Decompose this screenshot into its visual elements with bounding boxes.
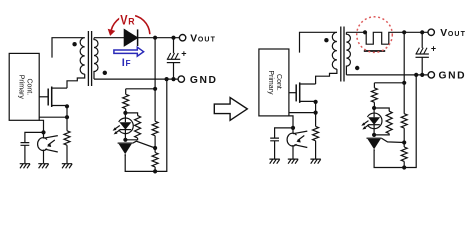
svg-text:Cont.: Cont. [275,74,282,91]
svg-text:+: + [431,43,436,53]
svg-text:GND: GND [190,75,218,86]
svg-text:F: F [126,58,131,68]
svg-text:OUT: OUT [198,36,216,43]
svg-text:V: V [440,28,447,39]
svg-text:Cont.: Cont. [26,78,33,95]
svg-text:+: + [181,49,186,59]
svg-text:Primary: Primary [18,75,25,100]
svg-text:R: R [128,17,135,27]
svg-text:OUT: OUT [448,31,466,38]
svg-text:GND: GND [439,71,467,82]
svg-text:V: V [120,12,128,28]
svg-text:V: V [190,33,197,44]
svg-text:Primary: Primary [267,70,274,95]
svg-text:I: I [122,57,125,69]
